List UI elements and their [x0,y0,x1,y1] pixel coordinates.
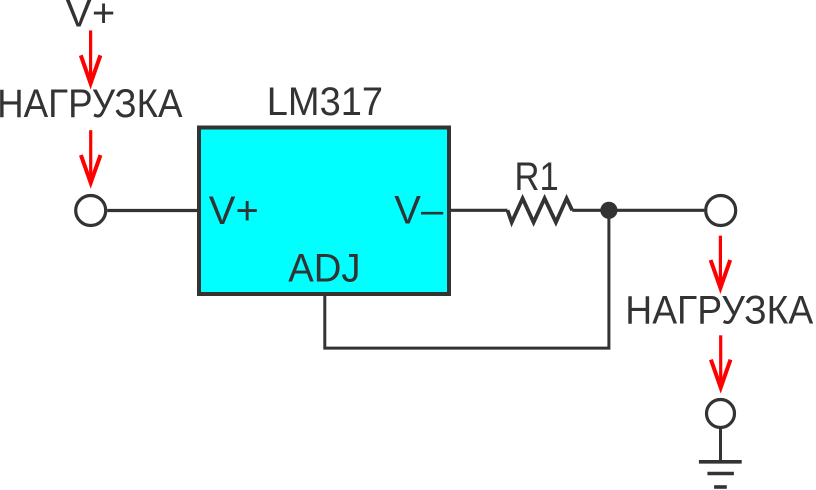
svg-text:LM317: LM317 [267,80,383,124]
svg-text:ADJ: ADJ [288,247,360,291]
resistor R1 [508,198,573,222]
svg-text:R1: R1 [515,155,559,199]
wire resistor to output terminal [572,209,704,212]
svg-text:НАГРУЗКА: НАГРУЗКА [0,82,183,126]
ground [699,462,742,487]
svg-text:НАГРУЗКА: НАГРУЗКА [625,288,813,332]
terminal input [76,196,106,226]
svg-text:V+: V+ [209,189,259,233]
svg-text:V+: V+ [65,0,115,36]
terminal output [706,196,736,226]
wire V- pin to resistor [449,209,508,212]
arrow input current flow 2 [81,130,101,183]
arrow input current flow 1 [81,30,101,83]
regulator U1 LM317 body [199,128,449,295]
terminal ground side [707,400,735,428]
wire input terminal to V+ pin [107,209,200,212]
arrow output current flow 1 [711,236,731,288]
wire terminal to ground [719,428,722,462]
junction node [600,202,617,219]
arrow output current flow 2 [711,335,731,387]
svg-text:V–: V– [394,189,444,233]
wire feedback junction to ADJ [325,212,609,348]
